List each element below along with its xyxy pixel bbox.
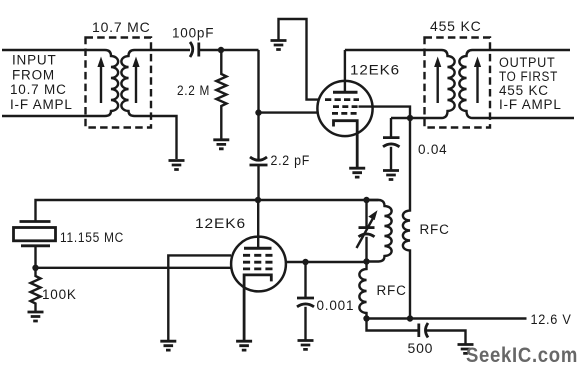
svg-text:0.04: 0.04 (418, 142, 447, 157)
svg-text:FROM: FROM (12, 68, 55, 83)
svg-text:2.2 pF: 2.2 pF (271, 153, 311, 168)
svg-text:100pF: 100pF (172, 26, 214, 41)
svg-text:2.2 M: 2.2 M (177, 83, 210, 98)
svg-text:100K: 100K (42, 287, 77, 302)
svg-text:OUTPUT: OUTPUT (499, 55, 556, 70)
svg-text:12.6 V: 12.6 V (531, 311, 572, 327)
svg-text:500: 500 (408, 340, 434, 356)
svg-text:TO FIRST: TO FIRST (499, 69, 558, 84)
svg-text:SeekIC.com: SeekIC.com (466, 343, 578, 367)
svg-text:455 KC: 455 KC (430, 18, 482, 34)
svg-text:12EK6: 12EK6 (350, 62, 400, 78)
svg-text:455 KC: 455 KC (499, 83, 549, 98)
svg-text:RFC: RFC (420, 222, 450, 237)
svg-text:10.7 MC: 10.7 MC (92, 19, 151, 35)
svg-text:INPUT: INPUT (12, 53, 57, 68)
svg-text:11.155 MC: 11.155 MC (60, 230, 124, 245)
svg-text:I-F AMPL: I-F AMPL (10, 97, 73, 112)
svg-text:0.001: 0.001 (317, 298, 355, 313)
svg-text:10.7 MC: 10.7 MC (10, 82, 67, 97)
svg-text:12EK6: 12EK6 (195, 215, 246, 231)
svg-text:RFC: RFC (377, 283, 407, 298)
svg-text:I-F AMPL: I-F AMPL (499, 97, 562, 112)
